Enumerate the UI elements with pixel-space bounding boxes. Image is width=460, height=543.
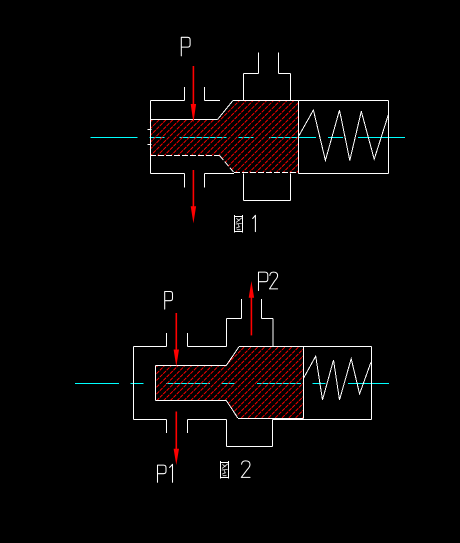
caption 1 fig1 xyxy=(253,215,256,231)
spool hatch fig2 xyxy=(156,347,304,419)
spool stem top edge fig1 xyxy=(150,119,218,121)
spring fig2 xyxy=(304,356,371,400)
spool block bottom hidden edge fig1 (dashed) xyxy=(234,172,299,174)
taper bottom diagonal fig1 (dashed) xyxy=(220,156,234,173)
label P fig2 xyxy=(165,292,173,310)
centerline fig2 xyxy=(75,383,389,385)
label P2 fig2 xyxy=(259,272,278,290)
arrow P2 outlet fig2 (up) xyxy=(249,281,254,335)
bottom port stack fig2 xyxy=(227,420,273,447)
spool outline fig2 xyxy=(156,347,304,419)
top port stack fig2 xyxy=(227,299,274,347)
spool hatch fig1 xyxy=(150,101,299,173)
caption 图 fig2 xyxy=(221,461,229,479)
spring fig1 xyxy=(299,110,389,160)
arrow P inlet fig1 xyxy=(191,66,196,123)
valve body fig1 outline xyxy=(151,87,389,188)
bore hidden ticks on left wall fig1 xyxy=(148,130,152,145)
valve body fig2 outline xyxy=(134,333,304,433)
caption 2 fig2 xyxy=(241,461,250,478)
caption 图 fig1 xyxy=(235,215,243,233)
arrow outlet bottom fig1 xyxy=(191,170,196,223)
stem bottom hidden edge fig1 (dashed) xyxy=(150,155,220,157)
taper bottom diagonal fig2 xyxy=(226,401,238,419)
centerline fig1 xyxy=(90,137,405,139)
label P1 fig2 xyxy=(158,464,173,482)
label P fig1 xyxy=(181,37,190,56)
bottom port stack fig1 xyxy=(244,174,291,201)
arrow P inlet fig2 xyxy=(174,313,179,367)
top port stack fig1 xyxy=(244,53,291,102)
taper top diagonal fig2 xyxy=(226,347,239,366)
taper top diagonal fig1 xyxy=(218,101,234,120)
arrow P1 outlet fig2 xyxy=(174,412,179,466)
spring chamber fig2 xyxy=(304,347,372,420)
